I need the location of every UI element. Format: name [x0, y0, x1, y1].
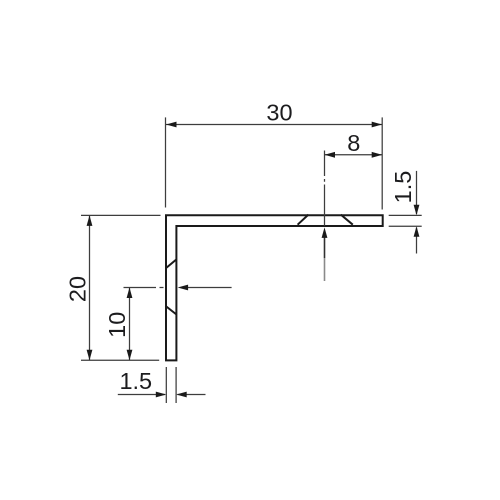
dimension line right 1.5 lower segment: [416, 228, 418, 254]
chain extension line for 10 dimension: [124, 287, 164, 289]
svg-text:1.5: 1.5: [390, 171, 416, 204]
extension line left of 30 dimension: [165, 117, 167, 207]
center chain line for 8 dimension: [324, 151, 326, 226]
dimension line 20: [89, 215, 91, 360]
svg-text:20: 20: [65, 276, 91, 302]
svg-text:30: 30: [266, 100, 292, 126]
dimension line 8: [325, 154, 383, 156]
arrow pointing left at inner face of vertical leg: [188, 287, 232, 289]
L-angle profile outline: [166, 215, 383, 360]
dimension line bottom 1.5 left segment: [118, 394, 165, 396]
extension line bottom of 20 and 10 dimensions: [81, 359, 159, 361]
dimension line 30: [166, 124, 382, 126]
svg-text:10: 10: [104, 312, 130, 338]
extension lines right 1.5 thickness: [389, 215, 422, 226]
break mark upper on vertical leg: [166, 260, 176, 269]
svg-text:1.5: 1.5: [119, 368, 152, 394]
dimension line right 1.5 upper segment: [416, 171, 418, 214]
svg-text:8: 8: [347, 130, 360, 156]
break mark left on horizontal leg: [298, 215, 309, 225]
break mark right on horizontal leg: [341, 215, 353, 225]
dimension line bottom 1.5 right segment: [177, 394, 205, 396]
extension line right of 30 and 8 dimensions: [381, 117, 383, 209]
dimension line 10: [129, 288, 131, 361]
extension lines bottom 1.5 thickness: [166, 367, 176, 403]
arrow pointing up at bottom face of horizontal leg: [324, 237, 326, 258]
break mark lower on vertical leg: [166, 306, 177, 315]
extension line top of 20 dimension: [81, 214, 161, 216]
